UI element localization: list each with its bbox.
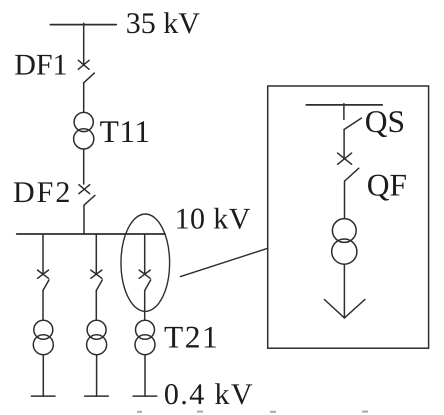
arrow head outgoing feeder: [324, 300, 365, 318]
wire QS to breaker cross: [343, 130, 345, 159]
wire QF to transformer: [344, 181, 346, 219]
LV bar feeder3: [133, 395, 157, 397]
transformer T21: [135, 320, 155, 354]
pointer line to detail box: [181, 248, 268, 276]
wire feeder3 drop: [144, 234, 146, 273]
switch feeder1: [38, 270, 50, 290]
svg-text:DF1: DF1: [14, 49, 67, 82]
LV bar feeder2: [85, 395, 109, 397]
wire feeder3 to transformer: [144, 291, 146, 321]
busbar in detail box: [306, 104, 382, 106]
fuse-switch DF1: [78, 60, 94, 83]
svg-text:QS: QS: [365, 104, 405, 139]
svg-text:0.4 kV: 0.4 kV: [164, 378, 254, 411]
fuse-switch DF2: [79, 185, 95, 206]
wire feeder1 to transformer: [42, 291, 44, 321]
svg-text:DF2: DF2: [13, 176, 72, 209]
wire bus35 to DF1: [83, 23, 85, 65]
svg-text:T21: T21: [164, 320, 219, 355]
LV bar feeder1: [31, 395, 55, 397]
transformer feeder2: [87, 320, 107, 354]
transformer feeder1: [33, 320, 53, 354]
busbar 10 kV: [17, 233, 165, 235]
svg-text:QF: QF: [367, 168, 407, 203]
transformer in detail box: [332, 219, 357, 265]
svg-text:35 kV: 35 kV: [126, 7, 201, 40]
wire bus to QS: [343, 104, 345, 120]
svg-text:T11: T11: [100, 114, 151, 149]
highlight ellipse around feeder3: [121, 214, 170, 311]
breaker QF blade: [345, 168, 359, 181]
wire T11 to DF2: [83, 149, 85, 184]
disconnector QS: [344, 118, 361, 129]
cropped caption remnants at bottom edge: [137, 411, 368, 413]
wire feeder1 to LV bar: [42, 355, 44, 396]
switch feeder3: [139, 270, 151, 290]
wire DF1 to T11: [83, 83, 85, 113]
switch feeder2: [91, 270, 103, 290]
wire feeder2 drop: [95, 234, 97, 273]
breaker cross: [338, 153, 352, 164]
transformer T11: [74, 112, 94, 149]
wire feeder3 to LV bar: [144, 355, 146, 396]
wire feeder1 drop: [42, 234, 44, 273]
svg-text:10 kV: 10 kV: [175, 202, 251, 235]
wire transformer to arrow: [343, 264, 345, 318]
wire feeder2 to transformer: [95, 291, 97, 321]
busbar 35 kV: [50, 24, 116, 26]
detail box frame: [268, 86, 429, 348]
wire feeder2 to LV bar: [96, 355, 98, 396]
wire DF2 to bus10: [83, 205, 85, 234]
